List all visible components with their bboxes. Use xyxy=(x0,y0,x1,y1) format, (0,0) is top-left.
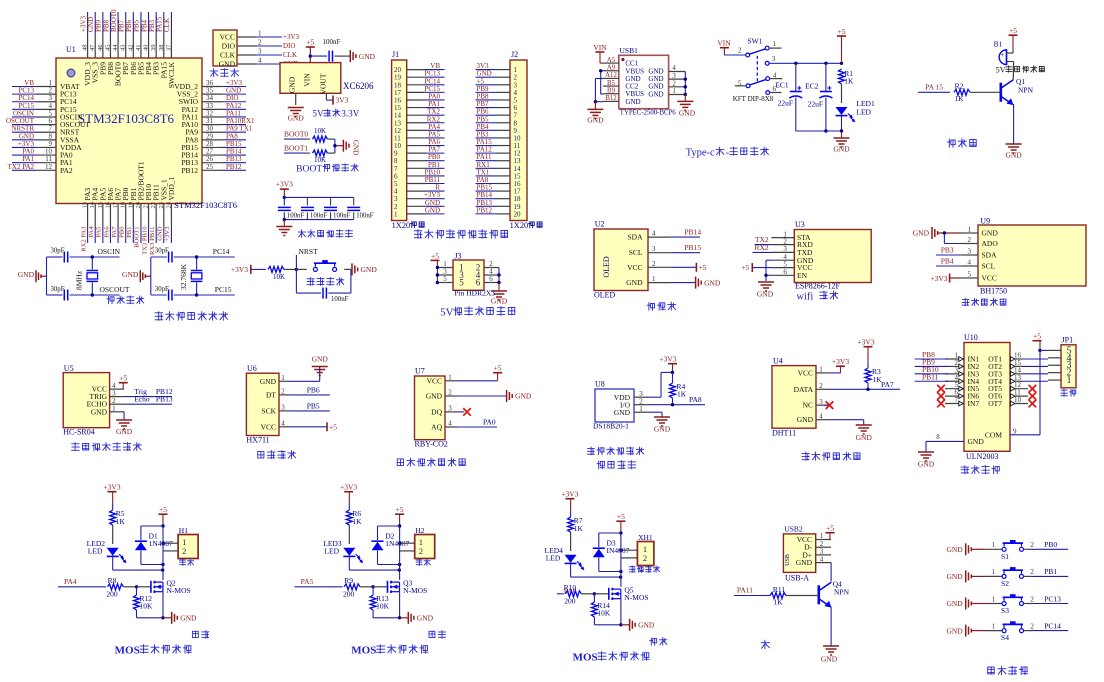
resistor R14 10K xyxy=(591,594,621,625)
svg-text:100nF: 100nF xyxy=(323,38,341,46)
svg-text:STM32F103C8T6: STM32F103C8T6 xyxy=(78,111,175,126)
svg-text:10: 10 xyxy=(1014,396,1022,404)
resistor 10K BOOT1 xyxy=(313,150,335,164)
svg-text:MOS: MOS xyxy=(115,645,140,657)
U1 left pin 2 PC13 xyxy=(12,87,77,99)
node gate R6 xyxy=(371,585,374,588)
svg-text:1: 1 xyxy=(773,40,777,48)
caption 水泵 xyxy=(429,631,435,637)
svg-text:B5: B5 xyxy=(607,80,616,87)
caption lamp xyxy=(761,640,769,649)
power +5 buzzer xyxy=(1009,26,1018,50)
svg-text:BOOT: BOOT xyxy=(296,164,322,175)
svg-text:22uF: 22uF xyxy=(778,99,793,108)
svg-text:3: 3 xyxy=(819,398,823,406)
ground USB1 left xyxy=(587,102,604,125)
U10 pin 8 GND xyxy=(926,433,984,452)
svg-text:GND: GND xyxy=(797,415,814,424)
node source-gnd R7 xyxy=(619,623,622,626)
wire VOUT to 3V3 xyxy=(326,93,348,104)
svg-text:4: 4 xyxy=(819,412,823,420)
svg-text:43: 43 xyxy=(120,45,127,52)
svg-text:1: 1 xyxy=(992,595,996,603)
sensor U5 HC-SR04 body xyxy=(63,364,109,437)
caption humidity sensor xyxy=(802,452,809,460)
svg-text:2: 2 xyxy=(738,47,742,55)
svg-text:GND: GND xyxy=(982,229,999,238)
U1 bottom pin 15 PA5 xyxy=(96,188,108,243)
wire wifi GND-EN bus xyxy=(766,260,771,281)
U1 top pin 37 SWCLK xyxy=(163,12,176,88)
power +5 HC-SR04 xyxy=(119,374,128,390)
U1 left pin 6 OSCOUT xyxy=(6,117,90,129)
svg-text:+5: +5 xyxy=(1033,332,1041,341)
sensor U4 DHT11 body xyxy=(772,357,816,438)
J3 left pin 3 xyxy=(437,268,453,276)
ground XC6206 xyxy=(288,108,305,123)
capacitor 100nF #4 xyxy=(347,197,374,219)
svg-text:200: 200 xyxy=(106,589,118,598)
U1 left pin 3 PC14 xyxy=(12,94,77,106)
svg-text:PC14: PC14 xyxy=(1044,621,1061,630)
ground DHT11 xyxy=(828,420,872,442)
svg-text:19: 19 xyxy=(127,202,134,209)
U1 bottom pin 17 PA7 xyxy=(111,188,123,243)
svg-text:2: 2 xyxy=(652,260,656,268)
svg-text:EC2: EC2 xyxy=(805,82,819,91)
U4 pin 1 VCC xyxy=(798,366,828,378)
svg-text:41: 41 xyxy=(135,45,142,52)
svg-text:VIN: VIN xyxy=(593,43,607,52)
no-connect X on DQ xyxy=(458,408,471,416)
U3 pin 3 TXD xyxy=(771,245,813,257)
svg-text:GND: GND xyxy=(625,98,640,106)
ground crystal 32.768K xyxy=(122,270,151,282)
svg-text:XH1: XH1 xyxy=(638,533,653,542)
crystal 32.768K left rail xyxy=(150,257,152,295)
U1 right pin 36 VDD_2 xyxy=(174,79,246,91)
net label PC14 xyxy=(197,247,235,257)
U10 pin 7 IN7 xyxy=(945,396,979,408)
power +5 R7 xyxy=(616,512,625,533)
node top rail R5 xyxy=(161,524,164,527)
net label NRST xyxy=(296,247,318,269)
power +5 R5 xyxy=(159,505,168,526)
svg-text:14: 14 xyxy=(89,201,96,208)
svg-text:H1: H1 xyxy=(179,526,188,535)
svg-text:ESP8266-12F: ESP8266-12F xyxy=(795,282,840,291)
svg-text:VCC: VCC xyxy=(798,368,813,377)
J1 pin 7 net PB1 xyxy=(394,161,445,173)
svg-text:4: 4 xyxy=(968,259,972,267)
LED LED4 xyxy=(545,546,585,577)
svg-text:GND: GND xyxy=(587,116,604,125)
svg-text:GND: GND xyxy=(918,460,935,469)
svg-text:1: 1 xyxy=(448,374,452,382)
ground filter caps xyxy=(276,220,292,236)
node R1 top xyxy=(840,62,843,65)
J1 pin 19 net PC13 xyxy=(394,70,445,82)
push button S1 xyxy=(985,540,1034,561)
svg-text:COM: COM xyxy=(985,430,1002,439)
U1 right pin 27 PB14 xyxy=(181,148,246,160)
svg-text:5V: 5V xyxy=(312,109,324,119)
ground crystal 8MHz xyxy=(18,270,47,282)
svg-text:U6: U6 xyxy=(247,364,257,373)
svg-text:5: 5 xyxy=(968,271,972,279)
caption MCU minimum system xyxy=(155,312,163,321)
USB1 right pin 3 xyxy=(669,73,686,80)
svg-text:HC-SR04: HC-SR04 xyxy=(63,428,95,437)
U1 left pin 12 PA2 xyxy=(8,163,73,175)
node H2 pin1 xyxy=(398,542,401,545)
svg-text:23: 23 xyxy=(158,202,165,209)
caption reset circuit xyxy=(307,278,314,286)
U7 pin 1 VCC xyxy=(427,374,458,386)
node filter top-left xyxy=(283,196,286,199)
power +5 typec xyxy=(837,27,846,64)
node OSC bottom 8MHz xyxy=(91,293,94,296)
net label PB9 xyxy=(915,358,948,367)
caption stepper motor xyxy=(961,466,969,474)
svg-text:GND: GND xyxy=(638,621,655,630)
svg-text:ADO: ADO xyxy=(982,239,999,248)
U10 pin 3 IN3 xyxy=(945,366,979,378)
node J3 left 1 xyxy=(436,266,439,269)
resistor R4 1K xyxy=(670,372,687,404)
J2 pin 10 net PB3 xyxy=(476,130,522,142)
svg-text:2: 2 xyxy=(182,546,186,556)
net label PA5 xyxy=(295,577,337,587)
svg-text:1K: 1K xyxy=(954,94,964,103)
svg-text:2: 2 xyxy=(1030,595,1034,603)
svg-text:+5: +5 xyxy=(617,512,625,521)
svg-text:DIO: DIO xyxy=(283,42,295,50)
J2 pin 16 net PA8 xyxy=(476,176,522,188)
svg-text:Pin HDR2X3: Pin HDR2X3 xyxy=(454,289,495,298)
svg-text:GND: GND xyxy=(116,427,133,436)
U1 top pin 44 BOOT0 xyxy=(110,9,123,86)
U10 pin 13 OT4 xyxy=(988,374,1022,386)
caption connector R6 xyxy=(416,559,422,565)
U1 left pin 1 VBAT xyxy=(12,79,80,91)
svg-text:GND: GND xyxy=(18,270,35,279)
U9 pin 1 GND xyxy=(962,226,998,238)
svg-text:VCC: VCC xyxy=(220,33,235,42)
U9 pin 4 SCL xyxy=(962,259,996,271)
ground BOOT rotated xyxy=(343,140,359,155)
svg-text:3: 3 xyxy=(258,48,262,56)
svg-text:+5: +5 xyxy=(741,263,749,272)
J2 pin 11 net PA15 xyxy=(476,138,521,150)
svg-text:1: 1 xyxy=(639,405,643,413)
resistor R10 200 xyxy=(557,583,595,605)
module U3 ESP8266 body xyxy=(794,220,871,291)
svg-text:DATA: DATA xyxy=(794,385,814,394)
wire LED to drain node R6 xyxy=(349,569,399,571)
switch SW1 xyxy=(717,37,782,103)
svg-text:B9: B9 xyxy=(607,88,616,95)
svg-text:GND: GND xyxy=(833,145,850,154)
svg-text:PA5: PA5 xyxy=(96,226,103,238)
node USB1 right 1 xyxy=(684,93,687,96)
svg-text:+3V3: +3V3 xyxy=(340,483,357,492)
U1 left pin 5 OSCIN xyxy=(12,109,83,121)
svg-text:R9: R9 xyxy=(344,576,353,585)
ground lamp xyxy=(821,646,839,664)
U9 pin 2 ADO xyxy=(962,236,998,248)
power +5 HX711 xyxy=(289,422,337,431)
svg-text:U10: U10 xyxy=(964,333,978,342)
node BOOT junction xyxy=(333,144,336,147)
svg-text:PB11: PB11 xyxy=(922,372,939,381)
svg-text:2: 2 xyxy=(643,553,647,563)
svg-text:8: 8 xyxy=(936,433,940,441)
svg-text:BOOT0: BOOT0 xyxy=(284,130,308,139)
U8 pin 3 VDD xyxy=(634,372,673,398)
svg-text:LED: LED xyxy=(88,547,103,556)
J3 left pin 5 xyxy=(437,275,453,283)
no-connect X IN5 xyxy=(937,385,945,393)
U1 right pin 31 PA10 xyxy=(182,117,255,129)
svg-text:A9: A9 xyxy=(607,65,616,72)
svg-text:GND: GND xyxy=(913,229,930,238)
U2 pin 2 VCC xyxy=(627,260,670,272)
driver U10 ULN2003 body xyxy=(964,333,1010,461)
wire OT2 to JP1 xyxy=(1022,365,1048,367)
svg-text:SDA: SDA xyxy=(627,233,643,242)
J2 pin 2 net GND xyxy=(476,70,518,82)
caption download port xyxy=(210,69,218,77)
svg-text:4: 4 xyxy=(258,57,262,65)
caption temperature module xyxy=(587,447,594,455)
svg-text:B1: B1 xyxy=(994,40,1003,49)
svg-text:B12: B12 xyxy=(605,95,617,102)
svg-text:PC14: PC14 xyxy=(213,247,230,256)
svg-text:45: 45 xyxy=(104,45,111,52)
svg-text:30pF: 30pF xyxy=(155,248,169,255)
svg-text:HX711: HX711 xyxy=(246,435,269,444)
wire SW1 pin3 to +5 rail xyxy=(769,62,841,64)
node EC1 top xyxy=(794,62,797,65)
U10 pin 5 IN5 xyxy=(945,381,979,393)
svg-text:PB1: PB1 xyxy=(1044,567,1057,576)
U1 top pin 41 PB5 xyxy=(133,12,146,75)
J2 pin 5 net PB8 xyxy=(476,92,518,104)
svg-text:39: 39 xyxy=(150,45,157,52)
svg-text:40: 40 xyxy=(143,45,150,52)
svg-text:CLK: CLK xyxy=(283,51,297,59)
svg-text:PB15: PB15 xyxy=(684,243,701,252)
svg-text:+5: +5 xyxy=(306,38,314,47)
connector download port (VCC DIO CLK GND) xyxy=(213,30,300,69)
node USB1 right 3 xyxy=(684,77,687,80)
U10 pin 1 IN1 xyxy=(945,352,979,364)
svg-text:A12: A12 xyxy=(605,72,617,79)
svg-text:VIN: VIN xyxy=(717,39,731,48)
svg-text:BH1750: BH1750 xyxy=(980,287,1007,296)
svg-text:U2: U2 xyxy=(595,220,605,229)
USB2 pin 4 xyxy=(816,555,831,563)
svg-text:5: 5 xyxy=(459,277,464,287)
net label BOOT1 xyxy=(284,144,310,154)
svg-text:NC: NC xyxy=(803,401,813,410)
power +3V3 R6 xyxy=(340,483,357,504)
svg-text:PA7: PA7 xyxy=(111,226,118,238)
wire gate R7 xyxy=(594,593,608,595)
U10 pin 9 COM xyxy=(985,428,1040,440)
buzzer B1 xyxy=(994,40,1014,75)
caption weighing module xyxy=(258,451,264,458)
wire gate R5 xyxy=(137,586,151,588)
svg-text:J1: J1 xyxy=(392,50,399,59)
wire +5 vertical R6 xyxy=(399,526,401,580)
U6 pin 4 VCC xyxy=(261,420,290,432)
U1 left pin 8 VSSA xyxy=(12,132,80,144)
U5 pin 3 TRIG xyxy=(90,389,125,401)
svg-text:7: 7 xyxy=(955,396,959,404)
J1 pin 8 net PB0 xyxy=(394,153,445,165)
svg-text:30pF: 30pF xyxy=(51,248,65,255)
svg-text:PA2: PA2 xyxy=(60,166,73,175)
ground buzzer xyxy=(1005,144,1022,160)
node A9 xyxy=(599,69,602,72)
node gate R5 xyxy=(135,585,138,588)
J2 pin 4 net PB9 xyxy=(476,85,518,97)
svg-text:PB0: PB0 xyxy=(1044,540,1057,549)
svg-text:NRST: NRST xyxy=(299,247,319,256)
svg-text:13: 13 xyxy=(82,202,89,209)
net label OSCOUT xyxy=(92,285,130,295)
svg-text:10K: 10K xyxy=(376,602,390,611)
USB1 pin A9 xyxy=(603,65,619,72)
U1 right pin 34 SWIO xyxy=(179,94,246,106)
ground R5 xyxy=(163,612,197,624)
svg-text:EC1: EC1 xyxy=(775,80,789,89)
svg-text:GND: GND xyxy=(91,407,108,416)
svg-text:N-MOS: N-MOS xyxy=(403,586,427,595)
net label PA6 xyxy=(557,586,576,595)
U1 bottom pin 21 PB10 xyxy=(141,184,153,255)
svg-text:+5: +5 xyxy=(431,252,439,261)
svg-text:GND: GND xyxy=(122,270,139,279)
wire USB1 right bus xyxy=(684,72,686,95)
no-connect X OT6 xyxy=(1029,392,1037,400)
svg-text:JP1: JP1 xyxy=(1062,335,1074,344)
U1 top pin 46 PB9 xyxy=(95,12,108,75)
node LED join R6 xyxy=(398,568,401,571)
svg-text:wifi: wifi xyxy=(796,292,813,303)
svg-text:+5: +5 xyxy=(838,27,846,36)
wire +5 to JP1 pin5 xyxy=(1040,349,1048,351)
svg-text:2: 2 xyxy=(258,39,262,47)
svg-text:U7: U7 xyxy=(415,367,425,376)
svg-text:VIN: VIN xyxy=(302,73,311,87)
svg-text:+5: +5 xyxy=(698,263,706,272)
U10 pin 6 IN6 xyxy=(945,389,979,401)
svg-text:GND: GND xyxy=(515,392,532,401)
U1 left pin 4 PC15 xyxy=(12,102,77,114)
svg-text:BOOT1: BOOT1 xyxy=(284,144,308,153)
power +5 lamp xyxy=(826,524,835,540)
U3 pin 2 RXD xyxy=(771,237,813,249)
svg-text:42: 42 xyxy=(127,45,134,52)
svg-text:U5: U5 xyxy=(64,364,74,373)
caption display xyxy=(647,303,654,311)
svg-text:10K: 10K xyxy=(140,602,154,611)
U1 bottom pin 19 PB1 xyxy=(126,187,138,243)
net label PB1 xyxy=(1032,567,1068,576)
net label PB6 xyxy=(289,385,330,395)
svg-text:100nF: 100nF xyxy=(356,213,374,220)
wire typec bottom rail xyxy=(796,130,842,132)
svg-text:EN: EN xyxy=(797,271,808,280)
power +3V3 reset xyxy=(231,265,266,274)
svg-text:GND: GND xyxy=(704,278,721,287)
U1 top pin 38 PA15 xyxy=(156,12,169,78)
J1 pin 14 net TX2 xyxy=(394,108,445,120)
U5 pin 1 GND xyxy=(91,405,124,417)
svg-text:XC6206: XC6206 xyxy=(343,81,374,91)
resistor R3 1K xyxy=(865,362,882,389)
U4 pin 3 NC xyxy=(803,398,828,410)
svg-text:4: 4 xyxy=(820,555,824,563)
net label PC15 xyxy=(197,285,235,295)
U2 pin 1 GND xyxy=(626,275,670,287)
svg-text:2: 2 xyxy=(968,236,972,244)
wire +5 vertical R7 xyxy=(620,533,622,587)
node USB1 right 2 xyxy=(684,85,687,88)
J1 pin 17 net PC15 xyxy=(394,85,445,97)
svg-text:48: 48 xyxy=(82,45,89,52)
resistor 10K BOOT0 xyxy=(313,127,335,142)
U1 left pin 7 NRST xyxy=(11,125,79,137)
U9 pin 5 VCC xyxy=(962,271,997,283)
crystal 32.768K xyxy=(179,257,203,295)
svg-text:100nF: 100nF xyxy=(310,213,328,220)
wire A9-B9 bus xyxy=(601,71,603,94)
svg-text:4: 4 xyxy=(672,65,676,72)
svg-text:VCC: VCC xyxy=(427,376,442,385)
caption connector R5 xyxy=(180,559,186,565)
svg-text:TX3 PB10: TX3 PB10 xyxy=(141,226,148,255)
node OSC bottom 32.768K xyxy=(195,293,198,296)
J2 pin 13 net PA11 xyxy=(476,153,522,165)
resistor R13 10K xyxy=(370,587,400,618)
svg-text:IN7: IN7 xyxy=(968,399,980,408)
power +5 CO2 xyxy=(458,364,502,381)
capacitor 30pF top 8MHz xyxy=(47,248,93,263)
caption light sensor xyxy=(962,298,969,305)
net label PB11 xyxy=(915,372,948,381)
svg-text:S3: S3 xyxy=(1001,606,1009,615)
J2 pin 15 net TX1 xyxy=(476,168,522,180)
ground OLED xyxy=(670,277,721,289)
net label Trig PB12 xyxy=(124,387,173,397)
power +3V3 light sensor xyxy=(930,274,962,283)
power +3V3 R5 xyxy=(103,483,120,504)
node LED join R5 xyxy=(161,568,164,571)
svg-text:GND: GND xyxy=(157,226,164,241)
svg-text:DT: DT xyxy=(266,390,276,399)
crystal 8MHz left rail xyxy=(46,257,48,295)
node diode join R5 xyxy=(161,563,164,566)
wire XC6206 GND pin xyxy=(295,93,297,105)
svg-text:GND: GND xyxy=(946,626,963,635)
svg-text:GND: GND xyxy=(425,206,440,214)
sensor U8 DS18B20 body xyxy=(593,380,634,431)
svg-text:1K: 1K xyxy=(574,524,584,533)
